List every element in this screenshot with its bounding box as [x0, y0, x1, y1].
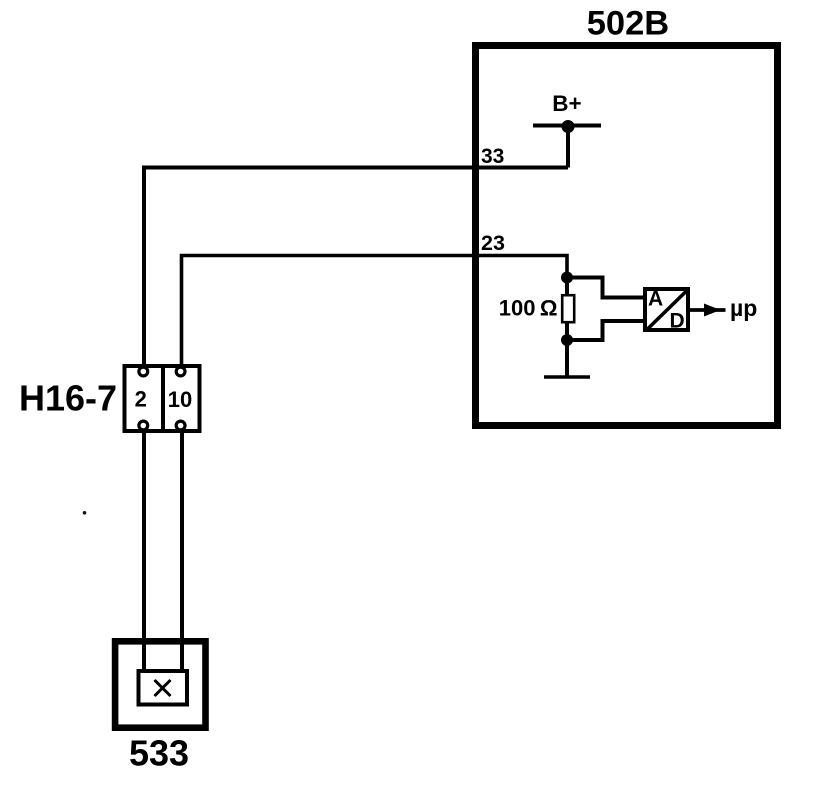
svg-text:A: A	[648, 288, 663, 311]
svg-text:µp: µp	[730, 295, 757, 321]
svg-text:33: 33	[481, 145, 504, 168]
svg-text:23: 23	[481, 231, 505, 255]
svg-text:D: D	[670, 310, 685, 333]
svg-text:533: 533	[129, 733, 189, 774]
svg-text:H16-7: H16-7	[19, 378, 117, 419]
svg-text:502B: 502B	[587, 5, 669, 43]
svg-text:B+: B+	[552, 91, 581, 116]
svg-text:2: 2	[135, 387, 147, 412]
svg-text:10: 10	[168, 387, 192, 412]
svg-text:100 Ω: 100 Ω	[499, 296, 558, 321]
